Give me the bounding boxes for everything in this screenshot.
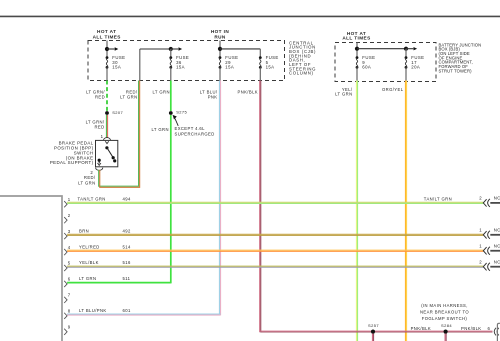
wire: LT GRN/RED from fuse 30 to splice S207 (dashed green) <box>106 81 108 112</box>
svg-text:PEDAL SUPPORT): PEDAL SUPPORT) <box>50 160 94 165</box>
svg-text:60A: 60A <box>362 65 371 70</box>
svg-text:TAN/LT GRN: TAN/LT GRN <box>424 196 452 201</box>
wire: YEL/RED circuit 514 (row 4) <box>67 249 483 251</box>
BPP switch pin 2 <box>90 163 102 175</box>
svg-text:514: 514 <box>123 244 131 249</box>
wire label: YEL/LT GRN <box>335 87 353 97</box>
svg-text:15A: 15A <box>266 65 275 70</box>
wire: fuse 17 top stub <box>405 49 407 58</box>
arrow: feed continues (fuse 36 bus) <box>171 47 182 50</box>
svg-text:15A: 15A <box>176 65 185 70</box>
node: fuse 17 feed junction <box>404 47 408 51</box>
svg-text:6: 6 <box>68 277 71 282</box>
svg-text:511: 511 <box>123 276 131 281</box>
wire: fuse 30 output stub <box>106 67 108 80</box>
BPP switch body <box>96 140 118 166</box>
power feed label: HOT IN RUN <box>211 29 229 40</box>
power feed label: HOT AT ALL TIMES (BJB) <box>342 31 370 40</box>
wire: LT BLU/PNK circuit 601 (row 8) joins fuse 29 drop <box>67 313 220 315</box>
wire: fuse 5 output stub <box>259 67 261 80</box>
fuse F36 (36 15A) <box>169 55 189 70</box>
wire: PNK/BLK from fuse 5 down to bottom bus <box>259 81 261 333</box>
svg-text:1: 1 <box>479 227 482 232</box>
wire label: LT BLU/PNK <box>200 90 218 100</box>
svg-text:STRUT TOWER): STRUT TOWER) <box>439 68 473 73</box>
wire label: RED/LT GRN (riser to fuse 36) <box>120 90 138 100</box>
wire: RED/LT GRN from BPP switch pin 2 up to fuse 36 bus <box>99 81 140 188</box>
inline connector pin 6 to foglamp switch <box>488 326 499 335</box>
wire: LT GRN circuit 511 (row 6) joins fuse 36 drop <box>67 282 171 284</box>
svg-text:494: 494 <box>123 196 131 201</box>
wire: PNK/BLK stub below S284 <box>444 334 446 341</box>
svg-text:LT GRN: LT GRN <box>120 94 137 99</box>
harness note <box>420 303 469 321</box>
wire label: LT GRN/RED (upper) <box>86 90 105 100</box>
fuse F9 (9 60A) <box>356 55 376 70</box>
svg-text:S257: S257 <box>368 323 379 328</box>
fuse F5 (5 15A) <box>259 55 279 70</box>
node: fuse 30 feed junction <box>105 47 109 51</box>
svg-text:LT GRN: LT GRN <box>153 90 170 95</box>
wire label: TAN/LT GRN 494 <box>78 196 131 201</box>
wire: fuse 9 output stub <box>356 67 358 80</box>
wire: TAN/LT GRN circuit 494 (row 1) <box>67 201 483 203</box>
svg-text:492: 492 <box>123 228 131 233</box>
svg-text:PNK/BLK: PNK/BLK <box>461 326 482 331</box>
svg-text:NC: NC <box>494 259 500 264</box>
wire label: LT BLU/PNK 601 <box>79 308 131 313</box>
foglamp switch box (clipped at edge) <box>497 323 500 341</box>
svg-text:EXCEPT 4.6L: EXCEPT 4.6L <box>175 126 206 131</box>
fuse F30 (30 15A) <box>106 55 126 70</box>
svg-text:3: 3 <box>68 229 71 234</box>
CJB name label <box>289 40 316 75</box>
wire: fuse 36 output stub <box>170 67 172 80</box>
svg-text:S284: S284 <box>441 323 452 328</box>
svg-text:2: 2 <box>90 170 93 175</box>
wire: YEL/BLK circuit 516 (row 5) <box>67 265 483 267</box>
connector pin 5 (left connector) <box>64 261 71 271</box>
svg-text:7: 7 <box>68 293 71 298</box>
svg-text:NC: NC <box>494 227 500 232</box>
svg-text:(IN MAIN HARNESS,: (IN MAIN HARNESS, <box>421 303 468 308</box>
connector pin 4 (left connector) <box>64 245 71 255</box>
svg-text:ALL TIMES: ALL TIMES <box>93 35 121 40</box>
svg-text:516: 516 <box>123 260 131 265</box>
wire: fuse 36 top stub <box>170 49 172 58</box>
wire label: BRN 492 <box>79 228 131 233</box>
connector pin 1 (left connector) <box>64 197 71 207</box>
wire: BRN circuit 492 (row 3) <box>67 233 483 235</box>
power feed label: HOT AT ALL TIMES (CJB) <box>93 29 121 40</box>
svg-text:FOGLAMP SWITCH): FOGLAMP SWITCH) <box>422 316 468 321</box>
wire label: YEL/BLK 516 <box>79 260 131 265</box>
node: fuse 9 feed junction <box>355 47 359 51</box>
note: EXCEPT 4.6L SUPERCHARGED <box>175 126 215 137</box>
brake pedal position (BPP) switch label <box>50 141 94 166</box>
connector pin 7 (left connector) <box>64 293 71 303</box>
svg-text:ORG/YEL: ORG/YEL <box>382 87 404 92</box>
wire: feed stub into fuse 29 (HOT IN RUN) <box>219 41 221 58</box>
svg-text:4: 4 <box>68 245 71 250</box>
svg-text:YEL/RED: YEL/RED <box>79 244 100 249</box>
wire: ORG/YEL from fuse 17 to bottom edge <box>404 81 406 341</box>
wire: PNK/BLK stub below S257 <box>371 334 373 341</box>
connector: component box at left (pins 1-9) <box>0 196 62 341</box>
svg-text:1: 1 <box>479 243 482 248</box>
svg-text:1: 1 <box>68 197 71 202</box>
svg-text:NC: NC <box>494 243 500 248</box>
connector pin 6 (left connector) <box>64 277 71 287</box>
svg-text:RED: RED <box>95 94 105 99</box>
wire: bus fuse 29 to fuse 5 <box>220 48 260 50</box>
svg-text:15A: 15A <box>225 65 234 70</box>
wire: PNK/BLK bottom bus to fog lamp switch <box>260 330 492 332</box>
svg-text:YEL/BLK: YEL/BLK <box>79 260 99 265</box>
svg-text:PNK/BLK: PNK/BLK <box>411 326 432 331</box>
wire label: LT GRN 511 <box>79 276 131 281</box>
svg-text:NC: NC <box>494 196 500 201</box>
wire: feed stub into fuse 30 <box>106 41 108 58</box>
node: fuse 29 feed junction <box>218 47 222 51</box>
svg-text:TAN/LT GRN: TAN/LT GRN <box>78 196 106 201</box>
BJB name label <box>439 42 482 73</box>
wire: LT GRN/RED from S207 to BPP switch pin 1 <box>105 115 107 138</box>
svg-text:15A: 15A <box>112 65 121 70</box>
fuse F29 (29 15A) <box>219 55 239 70</box>
splice S257 <box>368 323 379 334</box>
svg-text:LT GRN: LT GRN <box>79 276 96 281</box>
svg-text:LT GRN: LT GRN <box>335 91 352 96</box>
arrow: feed continues (BJB bus) <box>406 47 417 50</box>
BPP switch pin 1 <box>101 134 111 144</box>
battery junction box BJB (dashed outline) <box>335 43 436 82</box>
svg-text:PNK: PNK <box>208 94 218 99</box>
connector pin 2 (left connector) <box>64 213 71 223</box>
wire: feed stub into fuse 9 (BJB) <box>356 43 358 58</box>
svg-text:2: 2 <box>68 213 71 218</box>
wire: bus fuse 9 to fuse 17 <box>357 48 406 50</box>
connector pin 9 (left connector) <box>64 325 71 335</box>
wire: bus to fuse 36 <box>140 48 171 50</box>
node: fuse 36 feed junction <box>169 47 173 51</box>
splice S275 <box>169 110 188 115</box>
svg-text:NEAR BREAKOUT TO: NEAR BREAKOUT TO <box>420 310 469 315</box>
wire: YEL/LT GRN from fuse 9 to bottom edge <box>355 81 357 341</box>
svg-text:2: 2 <box>479 196 482 201</box>
BPP switch contacts <box>98 146 117 163</box>
wire: LT GRN from fuse 36 to splice S275 <box>170 81 172 112</box>
svg-text:HOT IN: HOT IN <box>211 29 229 34</box>
wire label: LT GRN/RED (lower) <box>86 120 105 130</box>
svg-text:2: 2 <box>479 259 482 264</box>
inline connector, pin 2 (right edge) <box>479 196 500 207</box>
leader arrow: note to splice S275 <box>173 115 179 126</box>
svg-text:RUN: RUN <box>214 35 226 40</box>
wire label: YEL/RED 514 <box>79 244 131 249</box>
arrow: feed continues (fuse 30 bus) <box>107 47 118 50</box>
svg-text:LT BLU/PNK: LT BLU/PNK <box>79 308 107 313</box>
wire: fuse 5 top stub <box>259 49 261 58</box>
splice S284 <box>441 323 452 334</box>
svg-text:SUPERCHARGED: SUPERCHARGED <box>175 131 215 136</box>
wire: fuse 17 output stub <box>405 67 407 80</box>
inline connector, pin 2 (right edge) <box>479 259 500 270</box>
wire label: RED/LT GRN (below switch) <box>78 175 96 185</box>
svg-text:5: 5 <box>68 261 71 266</box>
connector pin 3 (left connector) <box>64 229 71 239</box>
svg-text:LT GRN: LT GRN <box>78 180 95 185</box>
svg-text:RED: RED <box>94 125 104 130</box>
svg-text:9: 9 <box>68 325 71 330</box>
svg-text:8: 8 <box>68 309 71 314</box>
splice S207 <box>105 110 123 115</box>
inline connector, pin 1 (right edge) <box>479 227 500 238</box>
svg-text:20A: 20A <box>411 65 420 70</box>
svg-text:S207: S207 <box>112 110 123 115</box>
svg-text:COLUMN): COLUMN) <box>289 71 314 76</box>
svg-text:BRN: BRN <box>79 228 89 233</box>
svg-text:ALL TIMES: ALL TIMES <box>342 36 370 41</box>
wire: LT GRN from S275 down to connector pin 6 row <box>170 115 172 283</box>
connector pin 8 (left connector) <box>64 309 71 319</box>
svg-text:HOT AT: HOT AT <box>97 29 116 34</box>
svg-text:PNK/BLK: PNK/BLK <box>238 90 259 95</box>
svg-text:LT GRN: LT GRN <box>152 127 169 132</box>
svg-text:S275: S275 <box>176 110 187 115</box>
svg-text:1: 1 <box>101 134 104 139</box>
svg-text:601: 601 <box>123 308 131 313</box>
wire: LT BLU/PNK from fuse 29 down to row 8 <box>218 81 220 316</box>
wire: fuse 29 output stub <box>219 67 221 80</box>
svg-text:6: 6 <box>488 326 491 331</box>
wire: riser from BPP switch output to fuse 36 bus <box>139 49 141 81</box>
central junction box CJB (dashed outline) <box>88 41 285 81</box>
fuse F17 (17 20A) <box>405 55 425 70</box>
inline connector, pin 1 (right edge) <box>479 243 500 254</box>
